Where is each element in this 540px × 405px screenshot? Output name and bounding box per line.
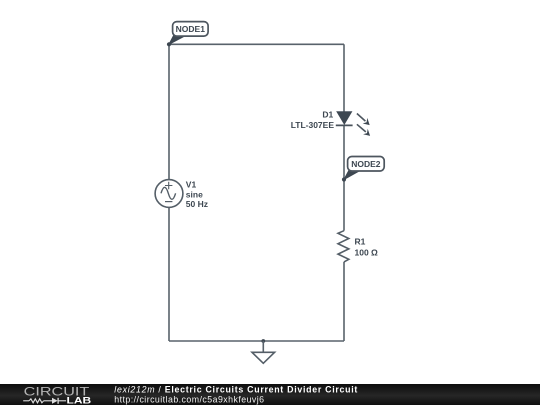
ground stub wire (262, 341, 264, 352)
node NODE2 junction dot (342, 177, 346, 181)
svg-text:lexi212m / Electric Circuits C: lexi212m / Electric Circuits Current Div… (114, 385, 358, 395)
V1 plus sign (165, 182, 172, 189)
wire right upper (343, 44, 345, 112)
node NODE2 callout pointer (344, 170, 361, 179)
svg-text:100 Ω: 100 Ω (355, 247, 379, 257)
label D1 (291, 109, 335, 130)
ground junction dot (261, 339, 265, 343)
svg-text:LAB: LAB (67, 395, 92, 405)
logo wire right (58, 400, 66, 402)
logo resistor zigzag (29, 399, 43, 403)
svg-text:sine: sine (186, 190, 203, 200)
ground (252, 339, 275, 363)
D1 light emission arrow 1 (357, 114, 366, 122)
wire top (169, 43, 344, 45)
wire right lower (343, 262, 345, 341)
D1 anode triangle (337, 112, 352, 125)
node NODE1 callout box (173, 22, 209, 36)
svg-text:http://circuitlab.com/c5a9xhkf: http://circuitlab.com/c5a9xhkfeuvj6 (114, 395, 264, 405)
V1 minus sign (165, 201, 172, 203)
D1 light emission arrow 2 (357, 124, 366, 132)
svg-text:NODE1: NODE1 (176, 24, 206, 34)
logo diode triangle (52, 398, 58, 404)
node NODE2 callout box (348, 157, 385, 172)
svg-text:50 Hz: 50 Hz (186, 199, 208, 209)
node NODE1 (167, 22, 208, 47)
svg-text:R1: R1 (355, 237, 366, 247)
LED D1 (336, 112, 370, 136)
V1 sine wave (161, 187, 176, 199)
node NODE1 callout pointer (169, 35, 187, 45)
wire left lower (168, 207, 170, 341)
label V1 value (186, 179, 208, 209)
logo diode (52, 398, 66, 404)
D1 cathode bar (336, 124, 353, 126)
resistor R1 (338, 231, 349, 262)
label R1 (355, 237, 379, 258)
node NODE1 junction dot (167, 42, 171, 46)
wire bottom (169, 340, 344, 342)
node NODE2 (342, 157, 384, 182)
svg-text:NODE2: NODE2 (351, 159, 381, 169)
logo diode cathode bar (57, 398, 59, 404)
V1 circle body (155, 180, 183, 208)
logo wire middle (44, 400, 52, 402)
ground triangle (252, 352, 275, 363)
footer bar (0, 384, 540, 405)
svg-text:V1: V1 (186, 179, 197, 189)
svg-text:LTL-307EE: LTL-307EE (291, 120, 335, 130)
logo schematic wire (23, 399, 52, 403)
voltage source V1 (155, 180, 183, 208)
svg-text:D1: D1 (322, 109, 333, 119)
wire left upper (168, 44, 170, 179)
logo wire left (23, 400, 29, 402)
wire right middle (343, 125, 345, 230)
